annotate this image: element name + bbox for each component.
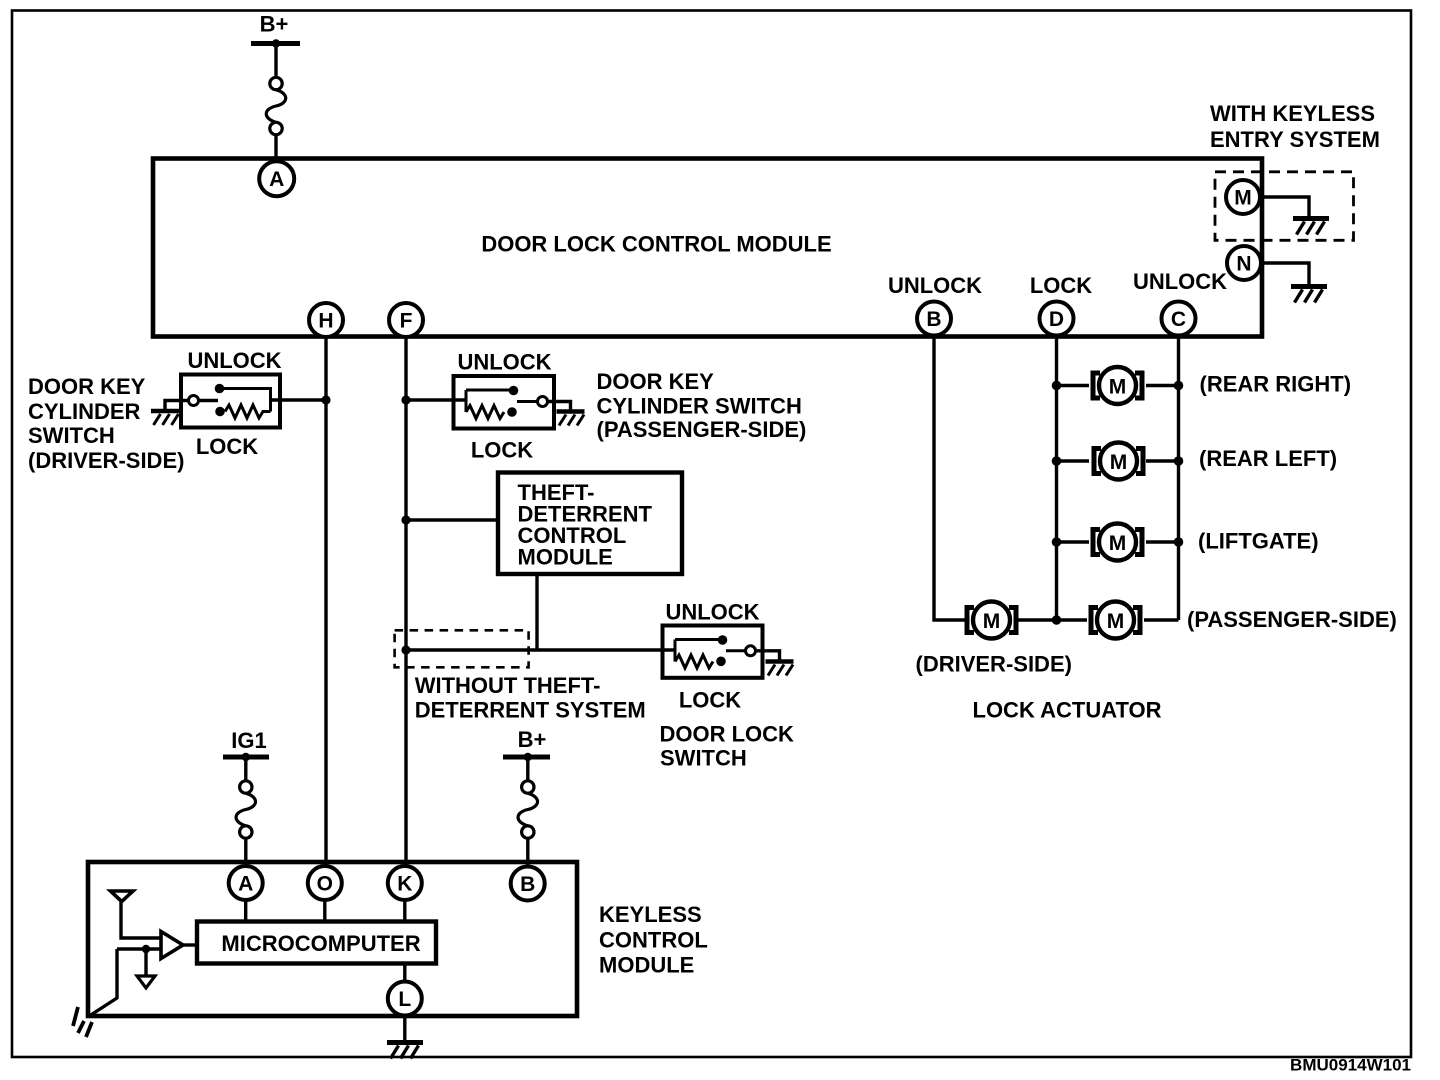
svg-text:(PASSENGER-SIDE): (PASSENGER-SIDE) — [597, 417, 807, 442]
svg-text:MICROCOMPUTER: MICROCOMPUTER — [221, 931, 420, 956]
svg-text:BMU0914W101: BMU0914W101 — [1290, 1056, 1411, 1075]
svg-text:LOCK: LOCK — [679, 688, 741, 713]
svg-text:ENTRY SYSTEM: ENTRY SYSTEM — [1210, 127, 1380, 152]
svg-text:(DRIVER-SIDE): (DRIVER-SIDE) — [916, 652, 1072, 677]
svg-text:C: C — [1171, 308, 1186, 331]
svg-text:UNLOCK: UNLOCK — [1133, 269, 1227, 294]
svg-text:N: N — [1236, 253, 1251, 276]
svg-text:B+: B+ — [518, 727, 547, 752]
svg-text:M: M — [1234, 187, 1252, 210]
svg-text:SWITCH: SWITCH — [28, 423, 115, 448]
svg-text:UNLOCK: UNLOCK — [665, 600, 759, 625]
svg-text:WITH KEYLESS: WITH KEYLESS — [1210, 101, 1375, 126]
svg-text:O: O — [317, 873, 333, 896]
svg-text:A: A — [269, 168, 284, 191]
svg-text:(LIFTGATE): (LIFTGATE) — [1198, 529, 1319, 554]
svg-text:LOCK: LOCK — [196, 434, 258, 459]
svg-text:(REAR LEFT): (REAR LEFT) — [1199, 446, 1337, 471]
svg-text:LOCK: LOCK — [471, 438, 533, 463]
svg-text:KEYLESS: KEYLESS — [599, 902, 702, 927]
svg-text:D: D — [1049, 308, 1064, 331]
svg-text:MODULE: MODULE — [518, 545, 613, 570]
svg-text:MODULE: MODULE — [599, 953, 694, 978]
svg-text:B: B — [520, 873, 535, 896]
svg-text:(REAR RIGHT): (REAR RIGHT) — [1200, 372, 1352, 397]
svg-text:IG1: IG1 — [231, 728, 266, 753]
svg-text:DOOR LOCK: DOOR LOCK — [660, 722, 795, 747]
svg-text:F: F — [400, 310, 413, 333]
svg-text:K: K — [397, 873, 412, 896]
svg-text:LOCK ACTUATOR: LOCK ACTUATOR — [973, 698, 1162, 723]
svg-text:(PASSENGER-SIDE): (PASSENGER-SIDE) — [1187, 607, 1397, 632]
svg-text:DETERRENT SYSTEM: DETERRENT SYSTEM — [415, 698, 646, 723]
svg-text:DOOR KEY: DOOR KEY — [597, 369, 715, 394]
svg-text:A: A — [238, 873, 253, 896]
svg-text:LOCK: LOCK — [1030, 273, 1092, 298]
svg-text:CYLINDER: CYLINDER — [28, 399, 141, 424]
svg-text:UNLOCK: UNLOCK — [187, 348, 281, 373]
svg-text:SWITCH: SWITCH — [660, 745, 747, 770]
svg-text:H: H — [318, 310, 333, 333]
svg-text:CONTROL: CONTROL — [599, 927, 708, 952]
svg-text:CYLINDER SWITCH: CYLINDER SWITCH — [597, 394, 802, 419]
svg-text:DOOR LOCK CONTROL MODULE: DOOR LOCK CONTROL MODULE — [481, 232, 831, 257]
svg-text:DOOR KEY: DOOR KEY — [28, 374, 146, 399]
svg-text:(DRIVER-SIDE): (DRIVER-SIDE) — [28, 448, 184, 473]
svg-text:UNLOCK: UNLOCK — [457, 350, 551, 375]
svg-text:WITHOUT THEFT-: WITHOUT THEFT- — [415, 673, 601, 698]
svg-text:L: L — [398, 988, 411, 1011]
svg-text:UNLOCK: UNLOCK — [888, 273, 982, 298]
svg-text:B+: B+ — [260, 12, 289, 37]
svg-text:B: B — [926, 308, 941, 331]
